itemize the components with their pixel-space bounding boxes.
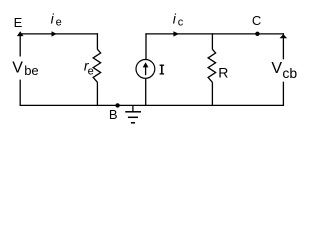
svg-text:c: c: [178, 17, 184, 29]
svg-text:E: E: [14, 15, 23, 30]
svg-text:V: V: [271, 60, 282, 77]
wire: R top lead: [211, 33, 213, 49]
svg-text:be: be: [24, 63, 38, 78]
svg-text:R: R: [218, 64, 228, 80]
wire: left vertical upper segment (E side): [19, 34, 21, 57]
wire: current source top lead: [145, 33, 147, 59]
resistor r_e zigzag: [93, 49, 101, 82]
wire: left vertical lower segment (below V_be): [19, 80, 21, 106]
resistor R zigzag: [208, 49, 216, 82]
wire: current source bottom lead: [145, 78, 147, 106]
current source I circle: [136, 60, 155, 79]
current source arrow (points up): [145, 67, 147, 76]
wire: r_e bottom lead: [96, 82, 98, 106]
svg-text:e: e: [88, 65, 94, 77]
wire: R bottom lead: [211, 82, 213, 106]
arrowhead at node E (points up): [17, 31, 24, 36]
wire: r_e top lead: [96, 33, 98, 49]
junction dot node B: [115, 103, 119, 107]
svg-text:V: V: [12, 59, 23, 76]
svg-text:cb: cb: [282, 65, 297, 81]
arrowhead i_c on top wire (points right): [173, 31, 179, 36]
arrowhead at node C side (points up, below top wire): [280, 34, 288, 38]
arrowhead i_e on top wire (points right): [52, 31, 57, 36]
wire: right vertical lower segment (below V_cb): [282, 82, 284, 106]
svg-text:C: C: [252, 13, 261, 28]
ground symbol: stub: [132, 105, 134, 111]
label I (serif): [160, 65, 165, 75]
ground bar 3: [131, 122, 135, 124]
junction dot node C: [255, 32, 259, 36]
ground bar 2: [128, 116, 138, 118]
wire: top-right horizontal (to node C): [145, 33, 284, 35]
wire: right vertical upper segment: [282, 33, 284, 59]
svg-text:e: e: [56, 17, 62, 29]
svg-text:B: B: [109, 107, 118, 122]
wire: top-left horizontal (node E to r_e): [20, 33, 99, 35]
ground bar 1: [125, 111, 141, 113]
wire: bottom horizontal (B rail): [20, 104, 284, 106]
